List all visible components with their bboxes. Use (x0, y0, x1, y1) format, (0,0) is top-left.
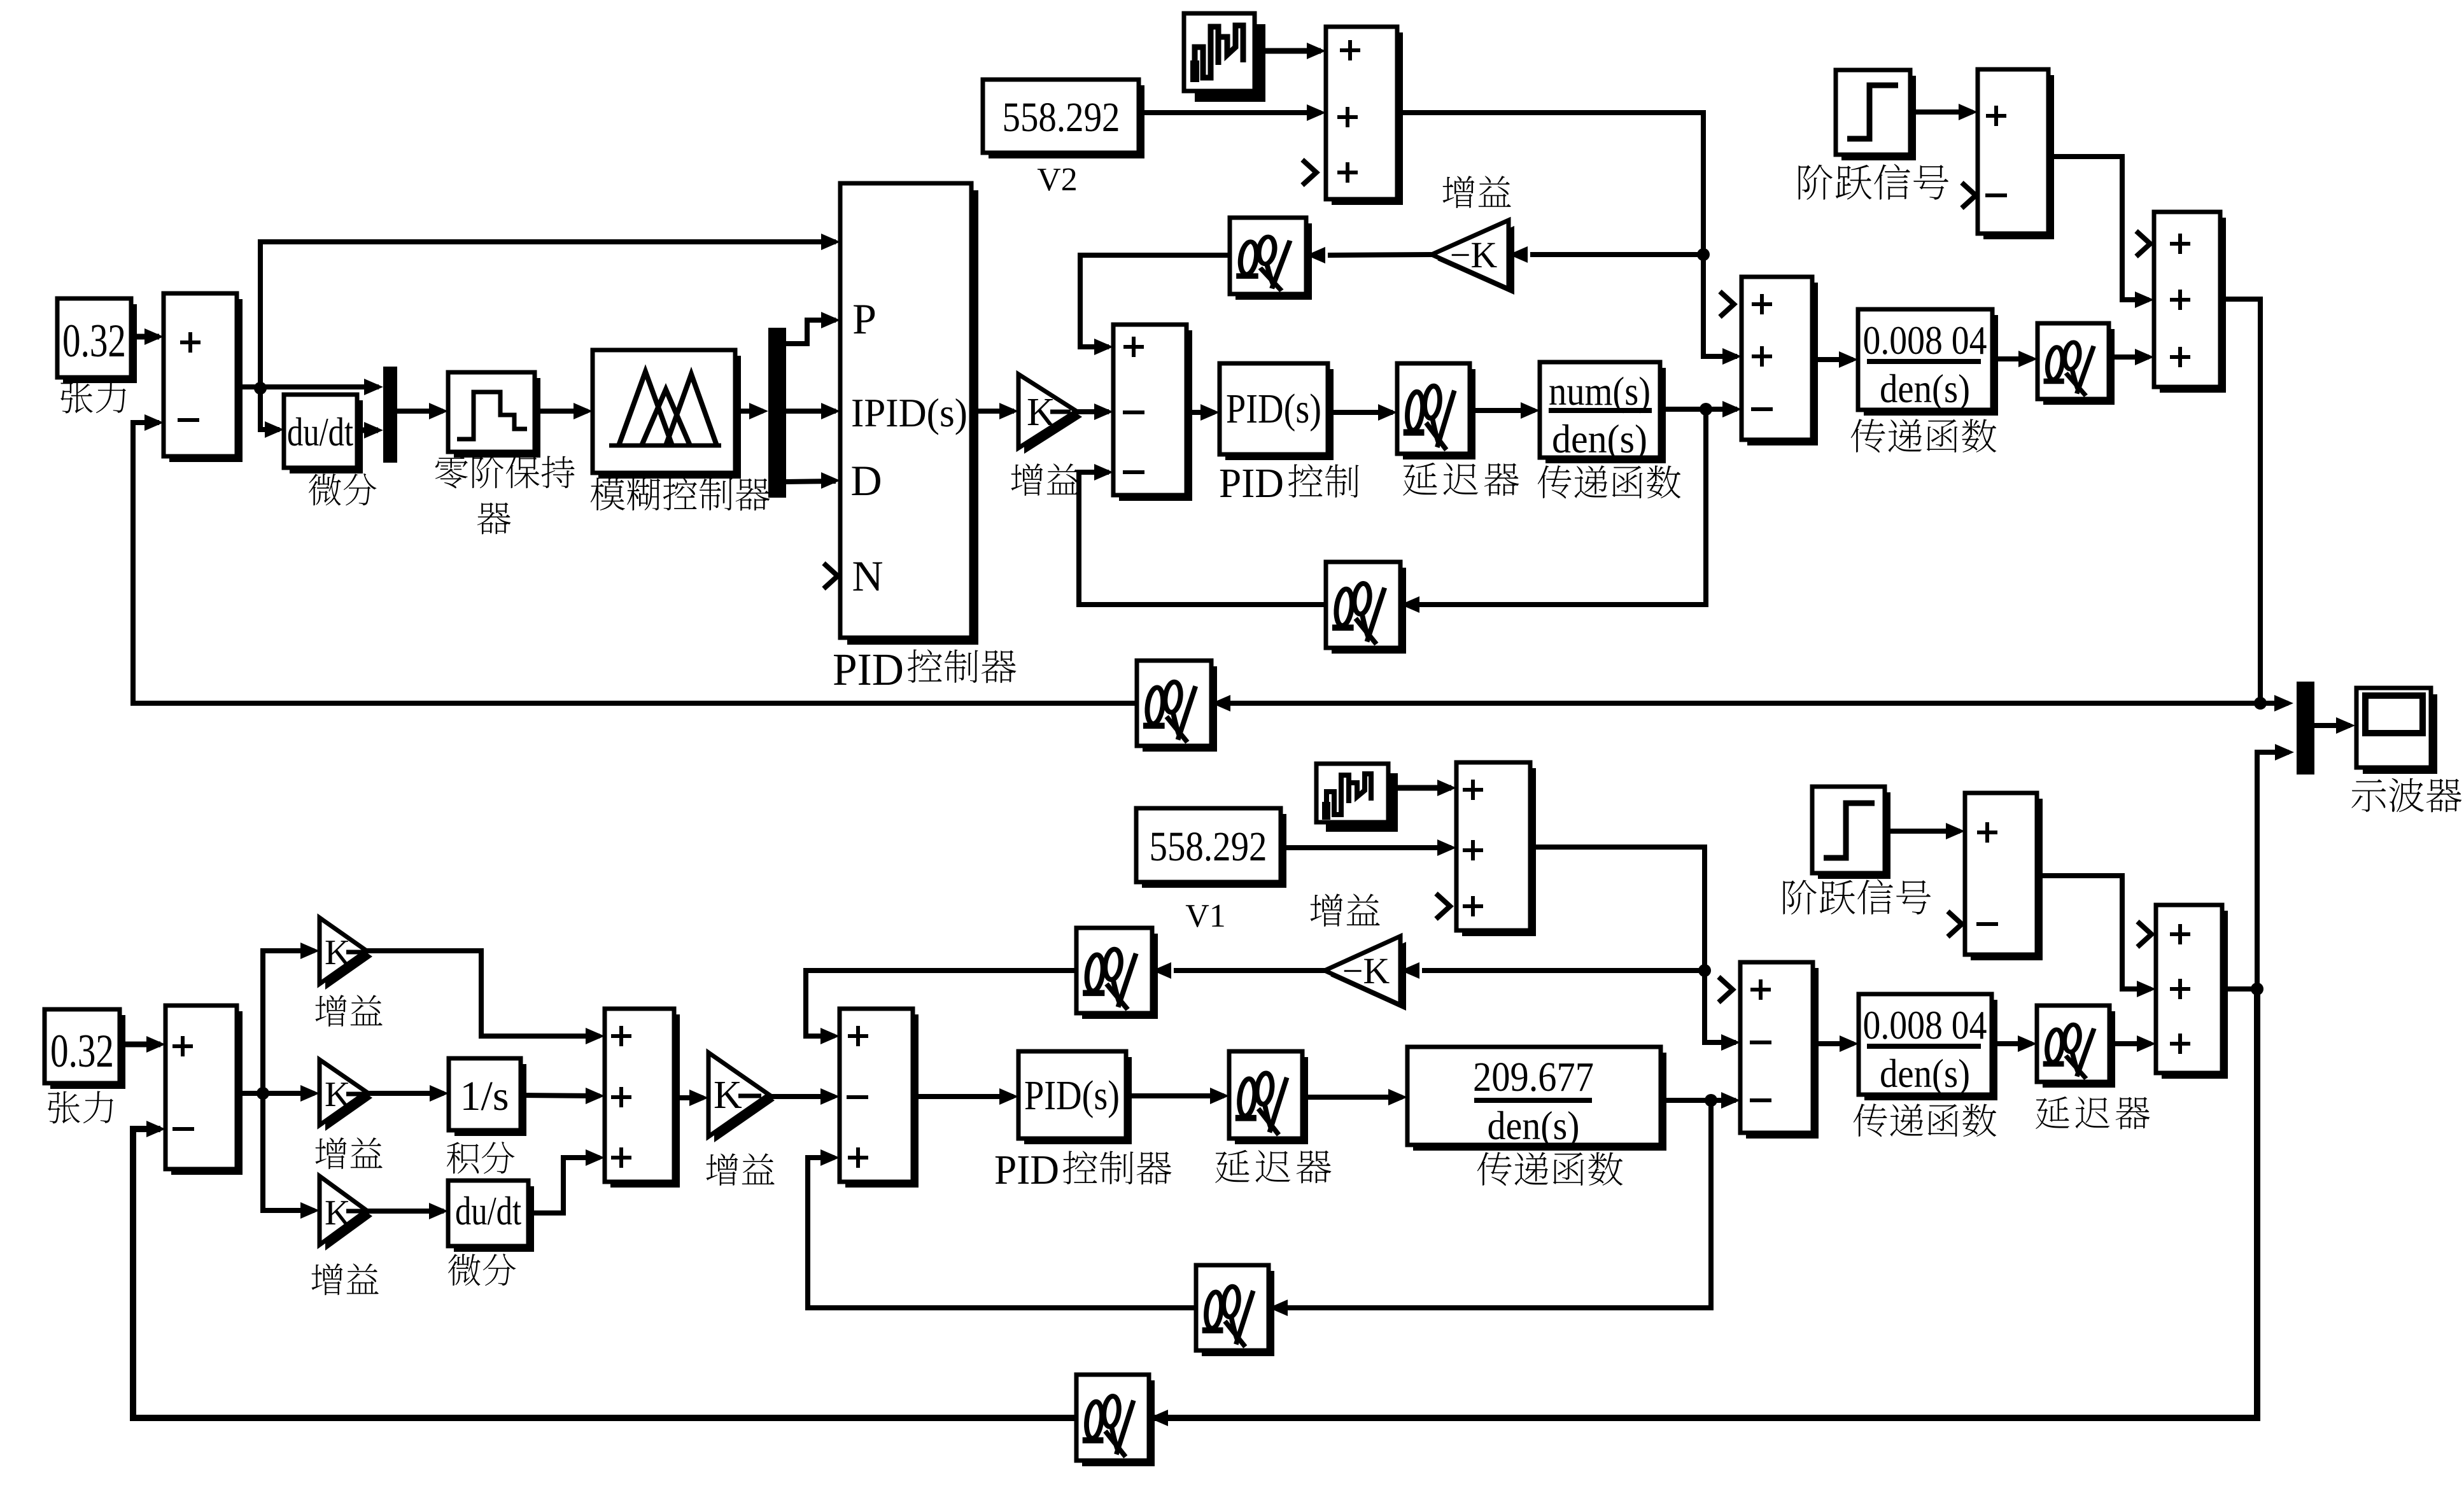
delay sine block (bottom inner feedback) (1202, 1271, 1274, 1356)
svg-text:−K: −K (1342, 950, 1390, 992)
svg-text:0.32: 0.32 (50, 1025, 114, 1077)
wire step to step-sum port1 (1910, 109, 1973, 115)
PID(s) block (top) (1225, 369, 1334, 460)
svg-text:0.008 04: 0.008 04 (1863, 1002, 1987, 1048)
svg-text:PID: PID (1219, 460, 1284, 507)
wire outer feedback to first sum port2 (133, 423, 1137, 703)
scope mux bar (2297, 682, 2314, 775)
big sum block (bottom) (610, 1014, 680, 1188)
wire bottom right sum output to junction (2222, 986, 2257, 992)
wire du/dt to mux port2 (357, 428, 378, 433)
wire branch up to gain1 (263, 951, 314, 1093)
wire gain K to bottom-middle sum port2 (769, 1094, 834, 1099)
wire 558.292 to V2 sum port2 (1139, 110, 1321, 115)
constant block 0.32 (top, tension ref) (63, 304, 137, 383)
wire branch down to gain3 (263, 1093, 314, 1210)
wire 558.292 to V1 sum port2 (1281, 845, 1451, 850)
long outer feedback wire (top) (1216, 701, 2260, 706)
right sum block (top) (2160, 218, 2226, 393)
svg-text:N: N (852, 552, 883, 600)
transfer function 0.008 04/den(s) (bottom) (1864, 1000, 1997, 1100)
unconnected port mark (V2 sum) (1302, 160, 1316, 185)
label 增益 (gain3) (311, 1263, 342, 1295)
sum block bottom-left (171, 1011, 243, 1175)
svg-text:558.292: 558.292 (1150, 824, 1267, 870)
label 零阶保持 (435, 456, 468, 489)
step sum block (bottom) (1971, 799, 2043, 960)
wire delay2 to right sum port3 (2109, 354, 2149, 360)
wire signal builder to V2 sum port1 (1255, 48, 1321, 54)
wire inner feedback to middle sum port3 (1079, 472, 1326, 605)
unconnected port mark (bottom right sum) (2137, 922, 2151, 947)
wire 0.008 to delay2 (bottom) (1992, 1041, 2032, 1046)
derivative block du/dt (bottom) (454, 1186, 534, 1252)
svg-text:du/dt: du/dt (287, 409, 353, 454)
signal builder block (bottom) (1326, 773, 1398, 832)
wire branch to -K gain (bottom) (1422, 968, 1705, 973)
delay sine block (top outer feedback) (1143, 666, 1217, 752)
wire PID out to gain K (971, 409, 1014, 414)
wire 209.677 to bottom main sum port3 (1661, 1098, 1736, 1103)
svg-text:0.32: 0.32 (62, 315, 126, 367)
label 传递函数 (209.677) (1477, 1152, 1512, 1186)
wire demux out1 to PID port P (786, 320, 836, 344)
unconnected port mark (V1 sum) (1436, 894, 1450, 919)
step sum block (top) (1983, 75, 2054, 239)
delay sine block (bottom upper feedback) (1082, 934, 1158, 1019)
delay block (top chain) (1403, 369, 1475, 459)
delay sine block after 0.008 (top) (2043, 329, 2115, 405)
label 增益 (-K top) (1443, 176, 1475, 208)
label 增益 (gain K top) (1011, 463, 1043, 496)
wire inner feedback to bottom-middle sum port3 (808, 1158, 1196, 1308)
svg-text:PID(s): PID(s) (1024, 1072, 1120, 1119)
label 传递函数 (0.008 bottom) (1854, 1104, 1887, 1137)
label 传递函数 (0.008 top) (1851, 419, 1885, 452)
label 积分 (447, 1142, 479, 1174)
transfer function 209.677/den(s) (1413, 1053, 1666, 1151)
svg-text:V2: V2 (1037, 162, 1078, 198)
wire gain1 to big sum port1 (367, 951, 600, 1036)
V1 sum block (1462, 768, 1536, 936)
delay sine block (top inner feedback) (1332, 568, 1406, 654)
svg-text:209.677: 209.677 (1473, 1054, 1594, 1100)
unconnected port mark (main sum top) (1720, 291, 1734, 317)
PID controller block (fuzzy PID) (847, 190, 978, 645)
wire gain K to middle sum port2 (1076, 409, 1109, 414)
PID(s) block (bottom) (1024, 1057, 1132, 1144)
wire gain2 to integrator (367, 1091, 444, 1096)
wire branch up to PID first input (260, 242, 836, 388)
bottom right sum block (2162, 911, 2228, 1079)
constant block 558.292 (V1) (1142, 814, 1286, 888)
step source block (bottom) (1818, 792, 1890, 879)
wire mux to zero-order hold (397, 409, 443, 414)
derivative block du/dt (top) (290, 400, 363, 473)
wire 0.008 to delay2 (top) (1992, 356, 2032, 361)
wire bottom main sum to 0.008 block (1813, 1041, 1854, 1046)
constant block 558.292 (V2) (989, 85, 1144, 158)
constant block 0.32 (bottom) (50, 1015, 125, 1089)
unconnected port mark (bottom main sum) (1719, 977, 1733, 1002)
svg-text:den(s): den(s) (1880, 366, 1970, 411)
gain triangle K- #3 (bottom) (325, 1182, 372, 1251)
wire junction down to bottom outer feedback (1154, 989, 2257, 1418)
wire 0.32 to sum port1 (bottom) (120, 1042, 160, 1048)
label 微分 (top) (309, 473, 341, 505)
label 延迟器 (top chain) (1403, 463, 1437, 496)
wire branch down to inner feedback delay (bottom) (1274, 1100, 1711, 1308)
signal builder block (top) (1195, 24, 1265, 102)
wire bottom-middle sum to PID(s) (913, 1094, 1013, 1099)
wire right sum output down to junction (2220, 299, 2260, 703)
wire fuzzy to demux (735, 409, 763, 414)
wire demux out2 to PID port IPID(s) (786, 409, 836, 414)
wire upper feedback to bottom-middle sum port1 (806, 971, 1076, 1036)
bottom main sum block (1746, 968, 1819, 1139)
wire branch down to du/dt (260, 388, 279, 430)
wire 0.32 to sum port1 (131, 334, 159, 340)
wire gain3 to du/dt (bottom) (367, 1209, 444, 1214)
wire junction to scope mux port1 (2260, 701, 2288, 706)
wire upper feedback to middle sum port1 (1080, 255, 1230, 347)
wire delay to num/den (1470, 408, 1535, 413)
svg-text:0.008 04: 0.008 04 (1863, 318, 1987, 363)
gain -K triangle (top) (1437, 226, 1514, 295)
label 延迟器 (delay2 bottom) (2036, 1097, 2069, 1129)
svg-text:PID(s): PID(s) (1226, 386, 1321, 432)
wire num/den to main sum port3 (1660, 407, 1737, 412)
demux bar (top) (768, 328, 786, 498)
label 张力 (bottom) (48, 1091, 80, 1124)
wire main sum to 0.008 block (1812, 357, 1853, 362)
delay sine block after 0.008 (bottom) (2043, 1011, 2115, 1088)
label 模糊控制器 (591, 477, 625, 510)
wire sum output to mux (237, 384, 379, 389)
wire step to step-sum port1 (bottom) (1885, 829, 1960, 834)
middle sum block (top) (1119, 330, 1192, 501)
wire step-sum to bottom right sum port2 (2037, 876, 2151, 989)
svg-text:den(s): den(s) (1552, 416, 1647, 461)
wire -K to upper feedback delay (top) (1328, 255, 1432, 255)
delay sine block (bottom outer feedback) (1082, 1380, 1155, 1466)
gain triangle K- (top) (1024, 380, 1082, 454)
main sum block (top) (1747, 283, 1818, 445)
wire branch to -K gain (top) (1530, 252, 1703, 257)
svg-text:den(s): den(s) (1488, 1103, 1580, 1148)
label 张力 (top) (60, 381, 93, 414)
bottom-middle sum block (845, 1014, 919, 1188)
label 阶跃信号 (bottom) (1783, 880, 1816, 915)
gain -K triangle (bottom) (1330, 942, 1406, 1011)
wire ZOH to fuzzy controller (535, 409, 588, 414)
wire PID(s) to delay (top) (1328, 410, 1393, 415)
wire V1 sum down to bottom main sum port2 (1530, 847, 1736, 1042)
svg-text:num(s): num(s) (1549, 368, 1651, 414)
label 增益 (gain2) (315, 1137, 346, 1169)
transfer function num(s)/den(s) (1545, 368, 1666, 463)
label 示波器 (2351, 779, 2386, 811)
wire demux out3 to PID port D (786, 481, 836, 482)
wire PID(s) to delay (bottom) (1126, 1093, 1224, 1098)
wire du/dt to big sum port3 (528, 1158, 600, 1213)
delay block (bottom chain) (1235, 1057, 1308, 1144)
svg-text:du/dt: du/dt (455, 1188, 521, 1233)
delay sine block (top upper feedback) (1236, 223, 1312, 300)
wire big sum to gain K (bottom) (674, 1095, 703, 1100)
svg-text:D: D (850, 456, 882, 505)
unconnected port mark (right sum top) (2136, 231, 2150, 256)
gain triangle K- #2 (bottom) (325, 1065, 372, 1131)
svg-text:den(s): den(s) (1880, 1051, 1970, 1096)
wire delay to 209.677 block (1302, 1095, 1402, 1100)
wire junction up to scope mux port2 (2257, 752, 2289, 989)
label 传递函数 (num/den) (1538, 465, 1572, 498)
wire sum output to gain2 (bottom) (237, 1091, 314, 1096)
transfer function 0.008 04/den(s) (top) (1864, 315, 1998, 416)
integrator block 1/s (454, 1064, 526, 1136)
zero-order hold block (454, 378, 540, 458)
label 增益 (gain1) (315, 995, 346, 1027)
gain triangle K- output (bottom) (714, 1058, 775, 1142)
wire middle sum to PID(s) (1186, 410, 1214, 415)
sum block top-left (169, 299, 243, 462)
svg-text:P: P (852, 295, 876, 343)
svg-text:−K: −K (1450, 234, 1498, 276)
unconnected port mark (step sum bottom) (1948, 911, 1962, 937)
unconnected port mark N (824, 563, 838, 589)
unconnected port mark (step sum top) (1962, 183, 1976, 208)
wire mux to scope (2314, 723, 2350, 728)
label 微分 (bottom) (448, 1254, 481, 1286)
mux bar (top) (383, 367, 397, 463)
svg-text:1/s: 1/s (460, 1073, 509, 1119)
step source block (top) (1841, 76, 1916, 160)
wire delay2 to bottom right sum port3 (2109, 1041, 2151, 1046)
wire branch down to inner feedback delay (top) (1405, 409, 1706, 605)
svg-text:PID: PID (994, 1147, 1059, 1193)
scope block (2363, 694, 2437, 774)
wire V2 sum down to main sum port2 (1397, 113, 1737, 356)
svg-text:PID: PID (833, 644, 904, 695)
wire integrator to big sum port2 (521, 1095, 600, 1096)
svg-text:V1: V1 (1185, 898, 1226, 934)
fuzzy controller block (598, 356, 741, 479)
label 增益 (gain K bottom) (707, 1153, 738, 1186)
gain triangle K- #1 (bottom) (325, 923, 372, 990)
svg-text:558.292: 558.292 (1003, 94, 1120, 141)
wire step-sum to right sum port2 (2048, 157, 2149, 300)
V2 sum block (1332, 32, 1403, 205)
label 延迟器 (bottom chain) (1215, 1150, 1250, 1183)
label 器 (477, 503, 511, 535)
label 增益 (-K bottom) (1311, 894, 1343, 927)
wire bottom outer feedback to bottom-left sum port2 (133, 1129, 1076, 1418)
label 阶跃信号 (top) (1799, 165, 1833, 200)
svg-text:IPID(s): IPID(s) (851, 390, 968, 435)
wire signal builder to V1 sum port1 (1388, 785, 1451, 791)
wire -K to upper feedback delay (bottom) (1174, 968, 1325, 973)
svg-text:K: K (714, 1074, 742, 1117)
